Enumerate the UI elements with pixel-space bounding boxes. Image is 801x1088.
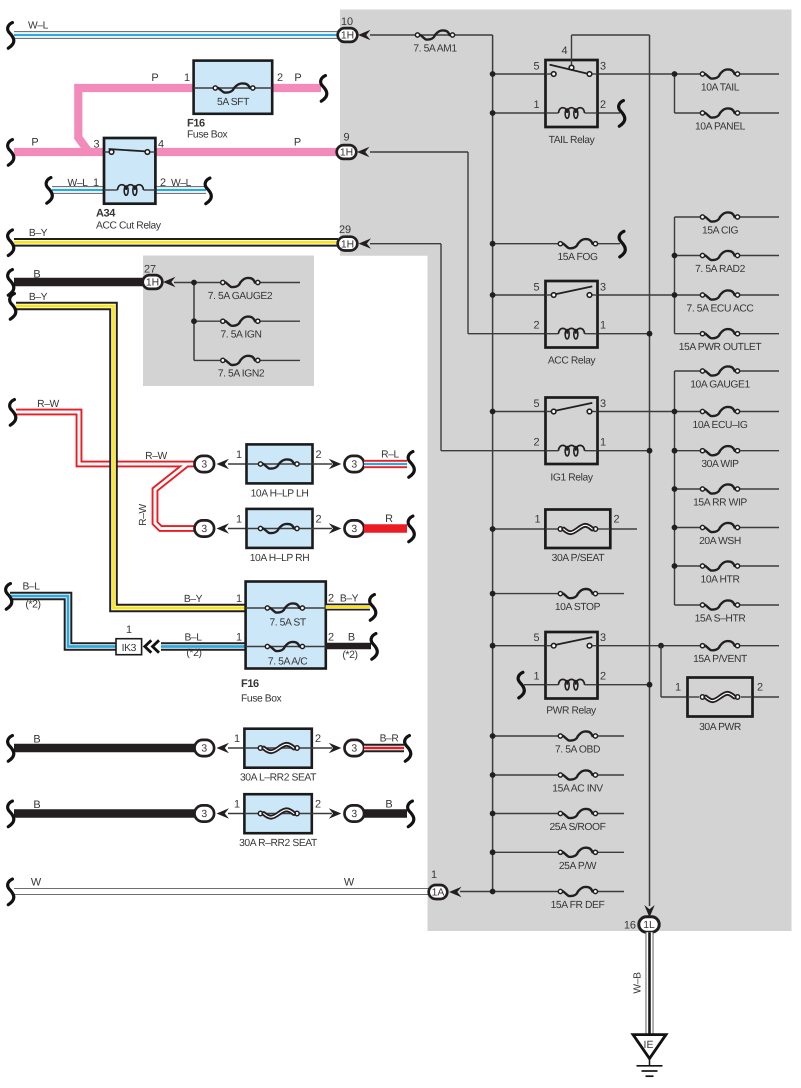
svg-text:10A GAUGE1: 10A GAUGE1	[690, 380, 750, 391]
svg-text:10A ECU–IG: 10A ECU–IG	[693, 420, 748, 431]
svg-text:5A SFT: 5A SFT	[217, 97, 250, 108]
svg-text:B: B	[33, 799, 40, 811]
svg-text:7. 5A AM1: 7. 5A AM1	[413, 44, 457, 55]
node junction WIP	[672, 448, 678, 454]
break at R	[408, 516, 414, 542]
node junction right bus-ACC pin1	[647, 331, 653, 337]
svg-text:P: P	[151, 72, 158, 84]
fuse 15A P/VENT	[700, 644, 704, 648]
relay A34 ACC Cut Relay	[104, 138, 155, 204]
svg-text:B–Y: B–Y	[184, 594, 203, 605]
break at PWR relay pin1	[518, 672, 524, 698]
connector 3 left of H-LP RH	[228, 528, 247, 530]
svg-text:A34: A34	[96, 208, 116, 220]
svg-text:3: 3	[93, 139, 99, 151]
connector 1L	[639, 917, 659, 932]
arrowhead at 1A	[449, 887, 462, 897]
svg-text:1: 1	[234, 799, 240, 811]
break at B L-RR2 left	[8, 736, 14, 762]
svg-text:3: 3	[600, 282, 606, 294]
svg-text:(*2): (*2)	[186, 647, 201, 659]
fuse 7.5A GAUGE2	[255, 282, 300, 284]
svg-text:10A HTR: 10A HTR	[701, 575, 740, 586]
fuse box 10A H-LP LH	[247, 444, 313, 483]
node junction HTR	[672, 563, 678, 569]
svg-text:2: 2	[600, 99, 606, 111]
wire PWR relay pin1 from break	[524, 684, 546, 686]
fuse box 10A H-LP RH	[247, 509, 313, 548]
wire B-Y output of 7.5A ST	[326, 604, 370, 611]
fuse 7.5A IGN2	[194, 359, 222, 361]
svg-text:7. 5A IGN: 7. 5A IGN	[220, 330, 261, 341]
wire B out	[364, 809, 407, 818]
arrowhead at 1H-10	[358, 30, 371, 40]
svg-text:ACC Relay: ACC Relay	[548, 356, 597, 367]
wire ACC relay pin3 to fuse column	[598, 294, 675, 296]
svg-text:30A R–RR2 SEAT: 30A R–RR2 SEAT	[239, 838, 318, 849]
fuse 15A AC INV	[558, 773, 562, 777]
wire IG1 relay pin1 to right bus	[598, 450, 650, 452]
fuse 10A HTR	[675, 565, 703, 567]
svg-text:IK3: IK3	[122, 643, 137, 654]
svg-text:R–L: R–L	[381, 450, 399, 461]
svg-text:2: 2	[613, 514, 619, 526]
svg-text:(*2): (*2)	[342, 649, 357, 661]
fuse 7.5A IGN	[194, 320, 222, 322]
wire IG1 relay pin3 to fuse column	[598, 411, 675, 413]
svg-text:1: 1	[236, 593, 242, 605]
svg-text:10A PANEL: 10A PANEL	[695, 122, 746, 133]
svg-text:W–B: W–B	[633, 972, 644, 994]
fuse 7.5A OBD	[558, 734, 562, 738]
arrowhead at H-LP LH output	[329, 459, 342, 469]
wire from 1H-27 arrow to GAUGE2 group	[174, 282, 222, 284]
svg-text:4: 4	[158, 139, 164, 151]
wire PWR relay pin3 to P/VENT junction	[598, 645, 662, 647]
fuse 7.5A ST	[246, 607, 326, 609]
in-line connector IK3	[116, 639, 142, 655]
break at B R-RR2 left	[8, 801, 14, 827]
connector 1H-27	[143, 275, 163, 289]
arrowhead at H-LP RH input	[217, 523, 230, 533]
wire B-Y stepped feed to 7.5A ST	[16, 306, 246, 608]
node junction RR WIP	[672, 486, 678, 492]
node junction bus-25A S/ROOF	[490, 811, 496, 817]
connector 3 left of R-RR2	[228, 813, 244, 815]
svg-text:30A P/SEAT: 30A P/SEAT	[552, 553, 606, 564]
wire B-Y to 1H-29	[14, 238, 338, 247]
fuse 15A RR WIP	[675, 488, 703, 490]
fuse column vertical CIG-PWR OUTLET	[674, 217, 676, 334]
svg-text:15A CIG: 15A CIG	[702, 226, 739, 237]
wire 25A S/ROOF from bus	[493, 813, 561, 815]
break at B left end	[8, 270, 14, 296]
wire R-W stepped feed to H-LP LH	[16, 412, 195, 464]
node junction RAD2	[672, 253, 678, 259]
arrowhead at 1H-27	[163, 277, 176, 287]
wire W to 1A connector	[14, 888, 429, 895]
wire P pink branch vertical to 5A SFT	[78, 88, 194, 152]
break at B-L left end	[6, 584, 12, 610]
wire B to 1H-27	[14, 278, 144, 287]
connector 1H-10	[338, 28, 358, 42]
break at B-Y left end	[8, 230, 14, 256]
svg-text:1H: 1H	[340, 148, 353, 159]
svg-text:25A S/ROOF: 25A S/ROOF	[549, 822, 605, 833]
svg-text:1L: 1L	[643, 920, 655, 931]
svg-text:1: 1	[184, 72, 190, 84]
fuse 15A FOG	[558, 242, 562, 246]
svg-text:1: 1	[533, 99, 539, 111]
fuse box F16 5A SFT	[194, 61, 273, 114]
connector 3 right of L-RR2	[345, 740, 365, 756]
wire ACC relay pin5 from bus	[493, 294, 546, 296]
svg-text:7. 5A OBD: 7. 5A OBD	[555, 745, 600, 756]
svg-text:7. 5A ECU ACC: 7. 5A ECU ACC	[687, 304, 755, 315]
svg-text:10A TAIL: 10A TAIL	[701, 83, 740, 94]
svg-text:2: 2	[328, 632, 334, 644]
svg-text:R–W: R–W	[37, 399, 59, 410]
wire 30A P/SEAT from bus	[493, 528, 546, 530]
wire TAIL relay pin3 to fuse column	[598, 73, 675, 75]
fuse column vertical TAIL/PANEL	[674, 74, 676, 113]
svg-text:B–Y: B–Y	[29, 228, 48, 239]
svg-text:B–L: B–L	[22, 582, 40, 593]
arrowhead at L-RR2 output	[329, 743, 342, 753]
fuse 10A PANEL	[675, 112, 703, 114]
fusible link 30A P/SEAT	[545, 510, 610, 549]
svg-text:1: 1	[534, 514, 540, 526]
svg-text:2: 2	[315, 449, 321, 461]
fuse 7.5A AM1	[415, 33, 419, 37]
wire 7.5A OBD from bus	[493, 735, 561, 737]
arrowhead at R-RR2 input	[217, 808, 230, 818]
svg-text:Fuse Box: Fuse Box	[241, 694, 283, 705]
node junction bus-IG1 pin5	[490, 409, 496, 415]
break at W left end	[8, 879, 14, 905]
svg-text:10A STOP: 10A STOP	[555, 602, 601, 613]
svg-text:W–L: W–L	[171, 178, 192, 189]
wire from 1H-29 to IG1 relay pin2	[370, 243, 441, 245]
svg-text:1H: 1H	[341, 31, 354, 42]
svg-text:7. 5A IGN2: 7. 5A IGN2	[218, 369, 265, 380]
node junction right bus-IG1 pin1	[647, 448, 653, 454]
svg-text:1: 1	[126, 624, 132, 636]
node junction ECU ACC	[672, 292, 678, 298]
break at P left end	[8, 140, 14, 166]
junction block shaded region	[340, 10, 792, 932]
wire 15A FR DEF from 1A connector	[460, 891, 560, 893]
wire P pink feed horizontal	[14, 148, 338, 156]
wire B-L stepped feed to IK3	[10, 596, 116, 647]
fuse 20A WSH	[675, 527, 703, 529]
TAIL relay U-TAIL	[546, 60, 598, 127]
svg-text:(*2): (*2)	[25, 599, 40, 611]
svg-text:3: 3	[351, 744, 357, 755]
node junction bus-15A AC INV	[490, 772, 496, 778]
svg-text:16: 16	[624, 920, 636, 932]
svg-text:3: 3	[201, 460, 207, 471]
svg-text:2: 2	[315, 799, 321, 811]
wire W-B to ground	[646, 932, 654, 1034]
break at 15A FOG	[619, 231, 625, 257]
svg-text:3: 3	[600, 61, 606, 73]
wire B-L from IK3 to 7.5A A/C	[161, 642, 246, 651]
svg-text:2: 2	[328, 593, 334, 605]
svg-text:7. 5A A/C: 7. 5A A/C	[268, 657, 308, 668]
wire IG1 relay pin5 from bus	[493, 411, 546, 413]
svg-text:30A WIP: 30A WIP	[701, 459, 739, 470]
svg-text:B: B	[348, 632, 355, 644]
double chevron at IK3	[145, 640, 152, 652]
svg-text:1: 1	[234, 733, 240, 745]
wire W-L to A34 pin1	[52, 186, 104, 194]
svg-text:P: P	[31, 137, 38, 149]
svg-text:30A PWR: 30A PWR	[699, 722, 741, 733]
fuse 10A ECU-IG	[675, 411, 703, 413]
svg-text:20A WSH: 20A WSH	[699, 536, 741, 547]
svg-text:B: B	[33, 269, 40, 281]
break at B-R	[405, 736, 411, 762]
fuse sub-block shaded region	[143, 256, 314, 387]
svg-text:15A RR WIP: 15A RR WIP	[693, 498, 747, 509]
svg-text:2: 2	[757, 682, 763, 694]
break at W-L pin2 side	[205, 178, 211, 204]
svg-text:3: 3	[600, 632, 606, 644]
svg-text:1H: 1H	[146, 278, 159, 289]
svg-text:W: W	[344, 877, 355, 889]
svg-text:29: 29	[339, 224, 351, 236]
fuse box F16 7.5A ST / 7.5A A/C	[246, 582, 326, 669]
fuse 15A CIG	[675, 216, 703, 218]
node junction bus-FOG	[490, 241, 496, 247]
wire R out	[364, 524, 407, 533]
ACC relay U-ACC	[546, 281, 598, 348]
fuse 15A FR DEF	[558, 889, 562, 893]
node junction bus end-FR DEF	[490, 889, 496, 895]
arrowhead into 1L	[644, 905, 654, 918]
svg-text:1: 1	[675, 682, 681, 694]
fuse 10A STOP	[558, 592, 562, 596]
arrowhead at 1H-9	[357, 147, 370, 157]
connector 3 right of H-LP LH	[345, 456, 365, 472]
svg-text:2: 2	[533, 320, 539, 332]
svg-text:1H: 1H	[341, 239, 354, 250]
wire 7.5A AM1 feed from 1H-10 to left bus	[370, 34, 493, 36]
svg-text:30A L–RR2 SEAT: 30A L–RR2 SEAT	[240, 773, 317, 784]
wire TAIL relay pin5 from bus	[493, 73, 546, 75]
break at B output	[371, 634, 377, 660]
connector 3 left of H-LP LH	[228, 463, 247, 465]
wire H-LP LH output	[313, 463, 333, 465]
node junction fuse column TAIL	[672, 71, 678, 77]
svg-text:15A AC INV: 15A AC INV	[552, 784, 603, 795]
wire PWR relay pin2 to right bus	[598, 684, 650, 686]
svg-text:R: R	[385, 513, 393, 525]
fuse 15A S-HTR	[675, 604, 703, 606]
svg-text:TAIL Relay: TAIL Relay	[549, 135, 596, 146]
svg-text:P: P	[294, 137, 301, 149]
svg-text:2: 2	[600, 671, 606, 683]
node junction bus-ACC pin5	[490, 292, 496, 298]
svg-text:10: 10	[341, 16, 353, 28]
svg-text:5: 5	[533, 398, 539, 410]
svg-text:R–W: R–W	[138, 503, 149, 525]
svg-text:W–L: W–L	[68, 178, 89, 189]
svg-text:B–Y: B–Y	[340, 594, 359, 605]
IG1 relay U-IG1	[546, 398, 598, 465]
svg-text:1: 1	[236, 514, 242, 526]
wire PWR relay pin5 from bus	[493, 645, 546, 647]
fuse 15A PWR OUTLET	[675, 333, 703, 335]
svg-text:1: 1	[600, 437, 606, 449]
svg-text:ACC Cut Relay: ACC Cut Relay	[96, 221, 162, 232]
svg-text:R–W: R–W	[145, 451, 167, 462]
arrowhead at L-RR2 input	[217, 743, 230, 753]
svg-text:15A PWR OUTLET: 15A PWR OUTLET	[679, 342, 763, 353]
svg-text:1: 1	[93, 177, 99, 189]
wire W-L to 1H-10	[14, 31, 338, 39]
node junction IGN	[191, 318, 197, 324]
wire P pink out of 5A SFT to break	[272, 84, 321, 92]
connector 3 right of R-RR2	[345, 805, 365, 821]
break at R-L	[408, 452, 414, 478]
fusible link box 30A R-RR2 SEAT	[244, 794, 311, 833]
svg-text:Fuse Box: Fuse Box	[187, 130, 229, 141]
svg-text:3: 3	[351, 460, 357, 471]
PWR relay U-PWR	[546, 632, 598, 699]
break at W-L left end	[8, 23, 14, 49]
fuse 7.5A ECU ACC	[675, 294, 703, 296]
connector 3 right of H-LP RH	[345, 520, 365, 536]
svg-text:10A H–LP LH: 10A H–LP LH	[251, 489, 309, 500]
break at B-Y second left end	[10, 294, 16, 320]
svg-text:B–R: B–R	[380, 734, 399, 745]
wire 15A P/VENT feed	[661, 645, 703, 647]
fusible link box 30A L-RR2 SEAT	[244, 729, 311, 768]
node junction P/VENT-30A PWR branch	[658, 643, 664, 649]
wire W-L from A34 pin2	[155, 186, 206, 194]
svg-text:1A: 1A	[432, 888, 445, 899]
fuse 25A P/W	[558, 850, 562, 854]
fusible link 30A PWR	[688, 678, 753, 717]
connector 1A	[429, 885, 448, 899]
svg-text:B: B	[33, 734, 40, 746]
svg-text:5: 5	[533, 61, 539, 73]
break at B right end	[408, 801, 414, 827]
svg-text:2: 2	[315, 733, 321, 745]
arrowhead at H-LP RH output	[329, 523, 342, 533]
wire H-LP RH output	[313, 528, 333, 530]
wire B-R out	[364, 744, 404, 753]
node junction bus-PWR pin5	[490, 643, 496, 649]
fuse 7.5A A/C	[246, 646, 326, 648]
svg-text:5: 5	[533, 282, 539, 294]
break at R-W left end	[10, 400, 16, 426]
svg-text:7. 5A RAD2: 7. 5A RAD2	[695, 264, 745, 275]
svg-text:1: 1	[236, 632, 242, 644]
break at W-L pin1 side	[46, 178, 52, 204]
svg-text:5: 5	[533, 632, 539, 644]
svg-text:2: 2	[160, 177, 166, 189]
svg-text:15A S–HTR: 15A S–HTR	[695, 614, 746, 625]
wire 10A STOP from bus	[493, 593, 561, 595]
node junction bus-P/SEAT	[490, 526, 496, 532]
right bus vertical from TAIL relay pin 4	[572, 34, 650, 36]
wire TAIL relay pin2 to break	[598, 112, 621, 114]
connector 1H-9	[337, 145, 357, 159]
wire B feed R-RR2	[14, 809, 195, 818]
svg-text:B–L: B–L	[184, 633, 202, 644]
break at B-Y output	[370, 595, 376, 621]
svg-text:2: 2	[533, 437, 539, 449]
svg-text:P: P	[294, 72, 301, 84]
svg-text:7. 5A ST: 7. 5A ST	[269, 618, 306, 629]
wire ACC relay pin1 to right bus	[598, 333, 650, 335]
wire 25A P/W from bus	[493, 851, 561, 853]
svg-text:IG1 Relay: IG1 Relay	[550, 473, 593, 484]
arrowhead at R-RR2 output	[329, 808, 342, 818]
wire 15A FOG from bus	[493, 243, 561, 245]
svg-text:15A FR DEF: 15A FR DEF	[551, 900, 605, 911]
svg-text:15A FOG: 15A FOG	[557, 252, 598, 263]
node junction ECU-IG	[672, 409, 678, 415]
svg-text:PWR Relay: PWR Relay	[546, 706, 597, 717]
svg-text:2: 2	[277, 72, 283, 84]
svg-text:1: 1	[600, 320, 606, 332]
svg-text:1: 1	[431, 869, 437, 881]
arrowhead at H-LP LH input	[217, 459, 230, 469]
svg-text:2: 2	[315, 514, 321, 526]
ground IE	[633, 1035, 666, 1059]
node junction bus-TAIL pin5	[490, 71, 496, 77]
svg-text:F16: F16	[241, 678, 259, 690]
connector 3 left of L-RR2	[228, 747, 244, 749]
svg-text:15A P/VENT: 15A P/VENT	[693, 654, 748, 665]
svg-text:3: 3	[600, 398, 606, 410]
svg-text:W–L: W–L	[28, 21, 49, 32]
svg-text:1: 1	[236, 449, 242, 461]
svg-text:B–Y: B–Y	[29, 292, 48, 303]
wire R-RR2 output	[312, 813, 332, 815]
wire from 1H-9 to ACC relay pin2	[370, 151, 468, 153]
wire TAIL relay pin1 from bus	[493, 112, 546, 114]
svg-text:4: 4	[561, 45, 567, 57]
wire 15A AC INV from bus	[493, 774, 561, 776]
wire branch to 30A PWR	[660, 646, 662, 697]
wire L-RR2 output	[312, 747, 332, 749]
svg-text:25A P/W: 25A P/W	[559, 861, 597, 872]
svg-text:7. 5A GAUGE2: 7. 5A GAUGE2	[208, 291, 273, 302]
fuse 7.5A RAD2	[675, 255, 703, 257]
node junction WSH	[672, 525, 678, 531]
wire 30A P/SEAT pin2 out	[610, 528, 637, 530]
svg-text:F16: F16	[187, 118, 205, 130]
arrowhead at 1H-29	[359, 238, 372, 248]
wire R-L out	[364, 460, 407, 468]
svg-text:3: 3	[201, 744, 207, 755]
svg-text:9: 9	[343, 132, 349, 144]
svg-text:B: B	[385, 799, 392, 811]
node junction bus-7.5A OBD	[490, 733, 496, 739]
left bus vertical	[492, 35, 494, 892]
node junction bus-TAIL pin1	[490, 110, 496, 116]
wire R-W branch to H-LP RH	[155, 464, 195, 529]
svg-text:3: 3	[351, 809, 357, 820]
fuse 25A S/ROOF	[558, 811, 562, 815]
svg-text:10A H–LP RH: 10A H–LP RH	[250, 553, 310, 564]
svg-text:W: W	[31, 877, 42, 889]
